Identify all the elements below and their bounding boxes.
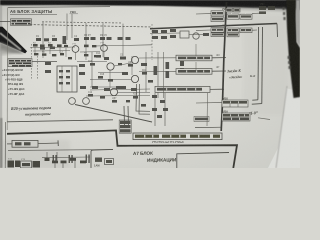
svg-text:А6 БЛОК ЗАЩИТЫ: А6 БЛОК ЗАЩИТЫ: [10, 9, 52, 14]
svg-text:ЖЗ: ЖЗ: [216, 54, 220, 57]
svg-text:R51-ВД ЖЗ: R51-ВД ЖЗ: [8, 82, 23, 86]
svg-text:1АМ: 1АМ: [94, 164, 99, 168]
svg-text:А7 БЛОК: А7 БЛОК: [133, 151, 153, 156]
svg-text:С12: С12: [88, 92, 93, 94]
svg-text:R9 С5: R9 С5: [100, 34, 107, 37]
svg-text:Звезда К: Звезда К: [226, 69, 242, 74]
svg-text:УВ7: УВ7: [260, 3, 265, 6]
svg-text:УВ3: УВ3: [70, 10, 76, 14]
svg-text:+34,5V(2)-ЖЗ М: +34,5V(2)-ЖЗ М: [2, 68, 23, 72]
svg-text:К-Б: К-Б: [249, 74, 255, 78]
svg-text:УТ5-УТ6/1-№2 УТ1-УТ2№8: УТ5-УТ6/1-№2 УТ1-УТ2№8: [152, 141, 184, 144]
svg-text:+31,5V(2)-ЖЗ: +31,5V(2)-ЖЗ: [2, 73, 20, 77]
svg-text:+5V-ЖГ ДА4: +5V-ЖГ ДА4: [8, 92, 25, 96]
svg-text:УВ5: УВ5: [222, 7, 227, 11]
svg-text:термозащиты: термозащиты: [25, 112, 51, 117]
svg-text:R5 R7: R5 R7: [84, 34, 91, 37]
svg-text:R24: R24: [133, 94, 138, 96]
svg-text:VД7: VД7: [112, 98, 117, 100]
svg-text:+5V-R53-ВД8: +5V-R53-ВД8: [5, 77, 23, 81]
svg-text:«Звезда»: «Звезда»: [229, 75, 243, 80]
svg-text:R21: R21: [142, 70, 147, 72]
svg-text:R16: R16: [88, 61, 93, 63]
svg-text:R20-установка порога: R20-установка порога: [11, 105, 51, 111]
svg-text:УВ6: УВ6: [222, 24, 227, 28]
svg-text:R18: R18: [100, 74, 105, 76]
svg-text:VД5: VД5: [128, 62, 133, 64]
svg-text:R14: R14: [96, 53, 101, 55]
svg-text:+5V-ЖЗ ДА4: +5V-ЖЗ ДА4: [8, 87, 25, 91]
svg-text:ИНДИКАЦИИ: ИНДИКАЦИИ: [147, 157, 176, 163]
